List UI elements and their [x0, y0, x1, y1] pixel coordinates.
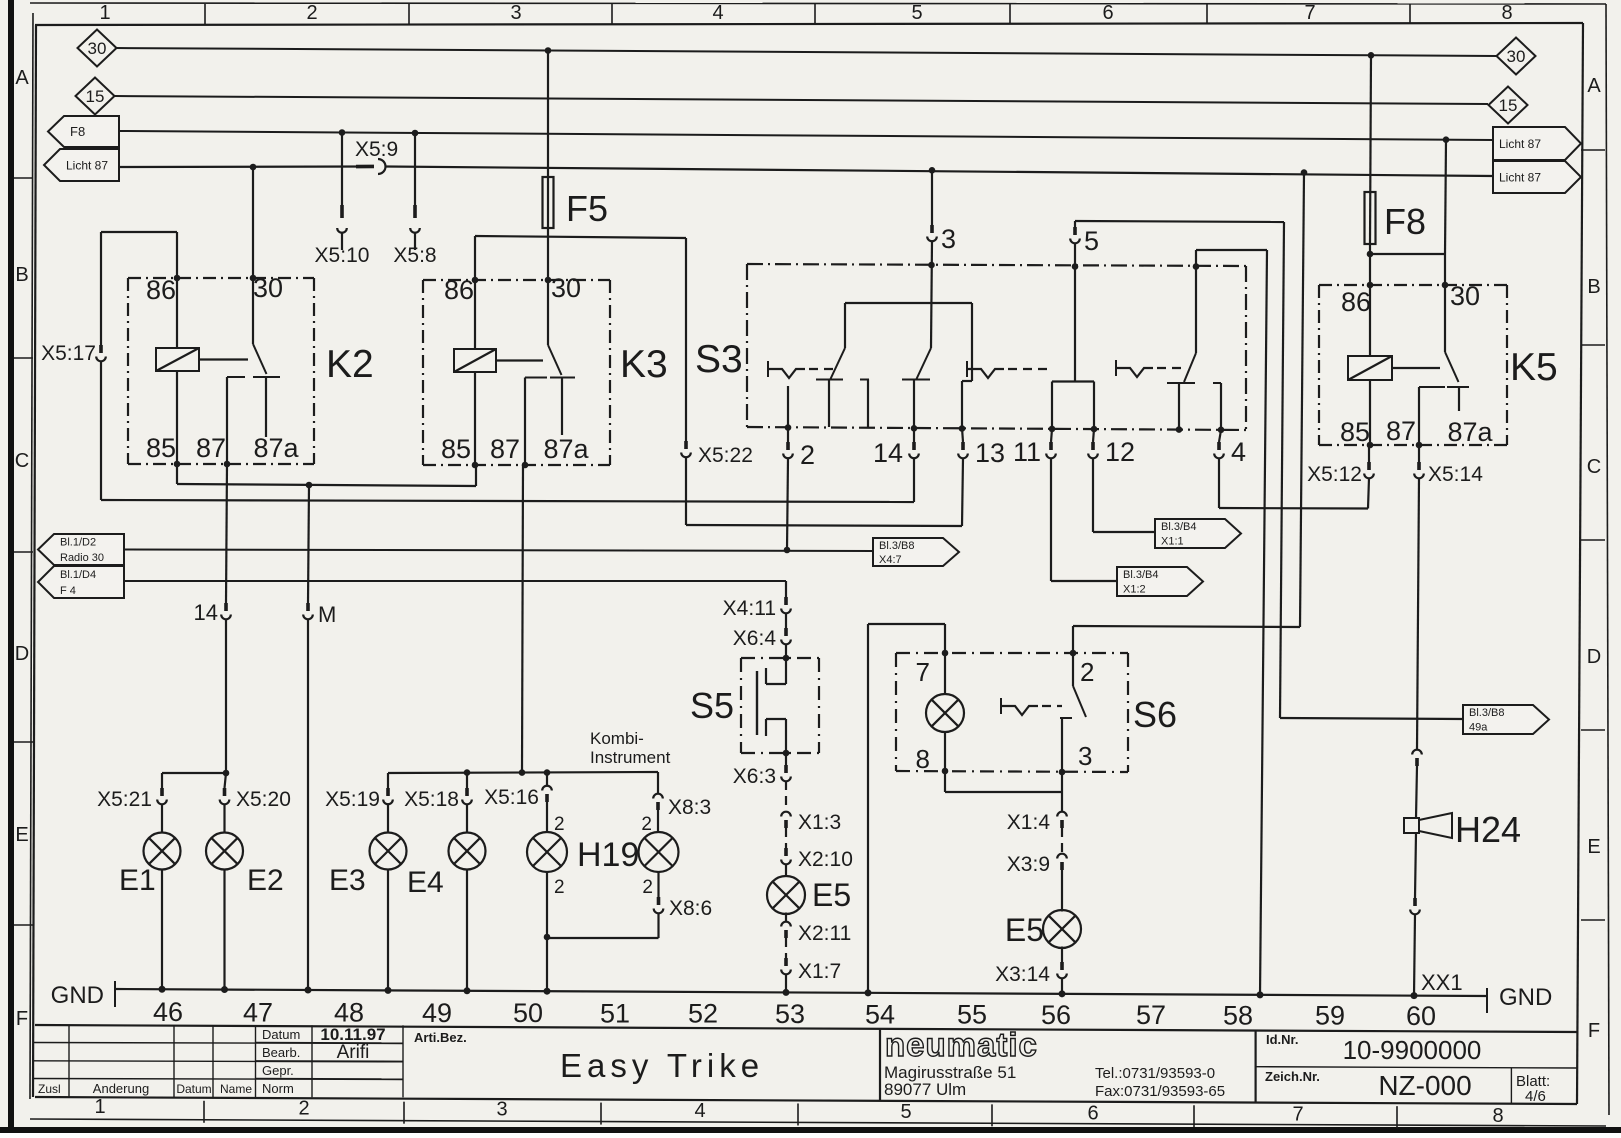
- svg-text:B: B: [15, 264, 28, 286]
- svg-text:F 4: F 4: [60, 585, 76, 597]
- svg-text:X3:9: X3:9: [1007, 853, 1050, 876]
- svg-text:Bl.3/B8: Bl.3/B8: [1469, 707, 1504, 719]
- svg-text:X2:10: X2:10: [798, 848, 853, 871]
- svg-text:87a: 87a: [253, 433, 299, 463]
- svg-text:6: 6: [1102, 2, 1113, 24]
- svg-text:Zusl: Zusl: [38, 1082, 61, 1096]
- svg-text:E2: E2: [247, 864, 284, 897]
- svg-text:87: 87: [490, 434, 520, 464]
- svg-text:3: 3: [510, 2, 521, 24]
- svg-text:Arifi: Arifi: [337, 1042, 370, 1063]
- svg-text:5: 5: [911, 2, 922, 24]
- svg-text:8: 8: [916, 744, 930, 774]
- svg-text:X5:16: X5:16: [484, 786, 539, 809]
- svg-text:E5: E5: [812, 877, 851, 913]
- svg-text:F5: F5: [566, 188, 608, 229]
- svg-text:4: 4: [712, 2, 723, 24]
- svg-text:E3: E3: [329, 864, 366, 897]
- svg-text:X5:9: X5:9: [355, 138, 398, 161]
- svg-text:2: 2: [1080, 657, 1094, 687]
- svg-text:89077 Ulm: 89077 Ulm: [884, 1080, 966, 1099]
- svg-text:Anderung: Anderung: [93, 1081, 149, 1096]
- svg-text:87a: 87a: [1447, 417, 1493, 447]
- svg-text:X1:2: X1:2: [1123, 584, 1146, 596]
- svg-text:Bearb.: Bearb.: [262, 1045, 300, 1060]
- svg-text:F: F: [16, 1008, 28, 1030]
- svg-text:Datum: Datum: [176, 1082, 211, 1096]
- svg-text:2: 2: [554, 814, 565, 835]
- svg-text:5: 5: [900, 1101, 911, 1123]
- svg-text:86: 86: [444, 275, 474, 305]
- svg-text:X1:4: X1:4: [1007, 811, 1051, 834]
- svg-text:50: 50: [513, 998, 543, 1028]
- svg-text:Tel.:0731/93593-0: Tel.:0731/93593-0: [1095, 1065, 1215, 1082]
- svg-text:11: 11: [1013, 437, 1041, 467]
- svg-text:86: 86: [146, 275, 176, 305]
- svg-text:Id.Nr.: Id.Nr.: [1266, 1032, 1299, 1047]
- svg-text:3: 3: [941, 224, 956, 254]
- svg-text:X5:17: X5:17: [41, 342, 96, 365]
- svg-text:2: 2: [641, 814, 652, 835]
- svg-text:E1: E1: [119, 864, 156, 897]
- svg-text:F8: F8: [1384, 201, 1426, 242]
- svg-text:Bl.3/B4: Bl.3/B4: [1123, 569, 1158, 581]
- svg-text:60: 60: [1406, 1001, 1436, 1031]
- svg-text:5: 5: [1084, 226, 1099, 256]
- svg-text:S3: S3: [695, 338, 743, 381]
- svg-text:X5:22: X5:22: [698, 444, 753, 467]
- svg-text:X5:8: X5:8: [393, 244, 436, 267]
- svg-text:E4: E4: [407, 866, 444, 899]
- svg-text:E5: E5: [1005, 912, 1044, 948]
- svg-text:2: 2: [642, 877, 653, 898]
- svg-text:Name: Name: [220, 1082, 252, 1096]
- svg-text:X1:7: X1:7: [798, 960, 841, 983]
- svg-text:Fax:0731/93593-65: Fax:0731/93593-65: [1095, 1083, 1225, 1100]
- svg-text:52: 52: [688, 999, 718, 1029]
- svg-text:Norm: Norm: [262, 1081, 294, 1096]
- svg-text:GND: GND: [1499, 984, 1552, 1011]
- svg-text:A: A: [1587, 75, 1601, 97]
- svg-text:1: 1: [99, 2, 110, 24]
- svg-text:Gepr.: Gepr.: [262, 1063, 294, 1078]
- svg-text:Licht 87: Licht 87: [1499, 170, 1541, 184]
- svg-text:85: 85: [1340, 417, 1370, 447]
- svg-text:7: 7: [1292, 1104, 1303, 1126]
- svg-text:14: 14: [873, 438, 903, 468]
- svg-text:X8:3: X8:3: [668, 796, 711, 819]
- svg-text:48: 48: [334, 998, 364, 1028]
- svg-text:10-9900000: 10-9900000: [1343, 1035, 1482, 1065]
- svg-text:X1:1: X1:1: [1161, 536, 1184, 548]
- svg-text:E: E: [15, 824, 28, 846]
- svg-text:X5:10: X5:10: [315, 244, 370, 267]
- svg-text:86: 86: [1341, 287, 1371, 317]
- svg-text:54: 54: [865, 999, 895, 1029]
- svg-text:GND: GND: [51, 982, 104, 1009]
- svg-text:59: 59: [1315, 1001, 1345, 1031]
- svg-text:56: 56: [1041, 1000, 1071, 1030]
- svg-text:8: 8: [1501, 2, 1512, 24]
- svg-text:15: 15: [86, 87, 105, 106]
- svg-text:F: F: [1588, 1020, 1600, 1042]
- svg-text:D: D: [15, 643, 29, 665]
- svg-text:Zeich.Nr.: Zeich.Nr.: [1265, 1069, 1320, 1084]
- svg-text:12: 12: [1105, 437, 1135, 467]
- svg-text:neumatic: neumatic: [885, 1026, 1038, 1063]
- svg-text:87: 87: [1386, 416, 1416, 446]
- svg-text:D: D: [1587, 646, 1601, 668]
- svg-text:6: 6: [1087, 1102, 1098, 1124]
- svg-text:85: 85: [146, 433, 176, 463]
- svg-text:C: C: [15, 450, 29, 472]
- svg-text:X5:18: X5:18: [404, 788, 459, 811]
- svg-text:X1:3: X1:3: [798, 811, 841, 834]
- svg-text:X2:11: X2:11: [798, 922, 851, 945]
- svg-text:3: 3: [1078, 741, 1092, 771]
- svg-text:H19: H19: [577, 836, 639, 874]
- svg-text:XX1: XX1: [1421, 970, 1463, 995]
- svg-text:A: A: [15, 67, 29, 89]
- svg-text:Kombi-: Kombi-: [590, 729, 644, 748]
- svg-text:13: 13: [975, 438, 1005, 468]
- svg-text:4: 4: [1231, 437, 1246, 467]
- svg-text:X5:21: X5:21: [97, 788, 152, 811]
- svg-text:30: 30: [253, 273, 283, 303]
- svg-text:S5: S5: [690, 685, 734, 726]
- svg-text:85: 85: [441, 434, 471, 464]
- svg-text:2: 2: [554, 877, 565, 898]
- svg-text:Arti.Bez.: Arti.Bez.: [414, 1030, 467, 1045]
- svg-text:X3:14: X3:14: [995, 963, 1050, 986]
- svg-text:K3: K3: [620, 343, 668, 386]
- svg-text:X4:11: X4:11: [723, 597, 776, 620]
- svg-text:3: 3: [496, 1099, 507, 1121]
- svg-text:F8: F8: [70, 124, 85, 139]
- svg-text:Bl.3/B8: Bl.3/B8: [879, 540, 914, 552]
- svg-text:X5:19: X5:19: [325, 788, 380, 811]
- svg-text:58: 58: [1223, 1000, 1253, 1030]
- svg-text:30: 30: [551, 273, 581, 303]
- svg-text:X5:12: X5:12: [1307, 463, 1362, 486]
- svg-text:49a: 49a: [1469, 722, 1488, 734]
- svg-text:Instrument: Instrument: [590, 748, 671, 767]
- svg-text:X5:14: X5:14: [1428, 463, 1483, 486]
- svg-text:7: 7: [1304, 2, 1315, 24]
- svg-text:8: 8: [1492, 1105, 1503, 1127]
- svg-text:K5: K5: [1510, 346, 1558, 389]
- svg-text:53: 53: [775, 999, 805, 1029]
- svg-text:Licht 87: Licht 87: [66, 158, 108, 172]
- svg-text:7: 7: [916, 657, 930, 687]
- svg-text:X5:20: X5:20: [236, 788, 291, 811]
- svg-text:Datum: Datum: [262, 1027, 300, 1042]
- svg-text:M: M: [318, 602, 336, 627]
- svg-text:47: 47: [243, 997, 273, 1027]
- svg-text:2: 2: [298, 1097, 309, 1119]
- svg-text:Easy Trike: Easy Trike: [560, 1047, 764, 1084]
- svg-text:87: 87: [196, 433, 226, 463]
- svg-text:2: 2: [800, 440, 815, 470]
- svg-text:49: 49: [422, 998, 452, 1028]
- svg-text:14: 14: [194, 600, 218, 625]
- svg-text:B: B: [1587, 276, 1600, 298]
- svg-text:Radio 30: Radio 30: [60, 552, 104, 564]
- svg-text:K2: K2: [326, 343, 374, 386]
- svg-text:Licht 87: Licht 87: [1499, 137, 1541, 151]
- svg-text:X8:6: X8:6: [669, 897, 712, 920]
- svg-text:Bl.3/B4: Bl.3/B4: [1161, 521, 1196, 533]
- svg-text:E: E: [1587, 836, 1600, 858]
- svg-text:4: 4: [694, 1100, 705, 1122]
- svg-text:57: 57: [1136, 1000, 1166, 1030]
- svg-text:30: 30: [88, 39, 107, 58]
- svg-text:30: 30: [1507, 47, 1526, 66]
- svg-text:4/6: 4/6: [1525, 1088, 1546, 1105]
- svg-text:30: 30: [1450, 281, 1480, 311]
- svg-text:C: C: [1587, 456, 1601, 478]
- svg-text:H24: H24: [1455, 809, 1521, 850]
- svg-text:87a: 87a: [543, 434, 589, 464]
- svg-text:2: 2: [306, 2, 317, 24]
- svg-text:51: 51: [600, 998, 630, 1028]
- svg-text:X6:3: X6:3: [733, 765, 776, 788]
- svg-text:Bl.1/D4: Bl.1/D4: [60, 569, 96, 581]
- svg-text:Bl.1/D2: Bl.1/D2: [60, 537, 96, 549]
- svg-text:X6:4: X6:4: [733, 627, 777, 650]
- svg-text:NZ-000: NZ-000: [1378, 1070, 1471, 1101]
- svg-text:46: 46: [153, 997, 183, 1027]
- svg-text:X4:7: X4:7: [879, 554, 902, 566]
- svg-text:1: 1: [94, 1096, 105, 1118]
- svg-text:S6: S6: [1133, 694, 1177, 735]
- svg-text:15: 15: [1499, 96, 1518, 115]
